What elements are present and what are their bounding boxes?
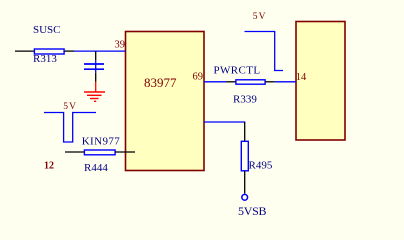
svg-text:R444: R444	[84, 162, 108, 174]
svg-text:SUSC: SUSC	[33, 24, 61, 36]
svg-text:83977: 83977	[144, 75, 177, 90]
svg-text:5V: 5V	[63, 102, 77, 112]
svg-text:14: 14	[296, 72, 307, 83]
svg-text:PWRCTL: PWRCTL	[214, 64, 261, 76]
svg-text:5V: 5V	[253, 12, 267, 22]
svg-text:R339: R339	[233, 94, 257, 106]
svg-text:12: 12	[44, 161, 54, 172]
svg-text:39: 39	[115, 40, 126, 51]
svg-text:5VSB: 5VSB	[238, 204, 266, 218]
svg-text:R495: R495	[249, 160, 273, 172]
svg-text:KIN977: KIN977	[82, 136, 121, 148]
svg-text:69: 69	[193, 72, 204, 83]
svg-text:R313: R313	[33, 53, 57, 65]
